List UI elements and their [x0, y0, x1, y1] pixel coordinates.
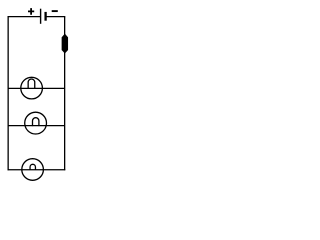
battery positive plate (long) — [40, 9, 42, 24]
wire: top left horizontal to battery positive plate — [8, 16, 41, 18]
wire: rung 2 horizontal — [8, 125, 65, 127]
lamp L2 — [25, 112, 47, 134]
component: filled capsule (fuse) on right branch — [62, 34, 68, 53]
wire: right vertical branch — [64, 17, 66, 171]
wire: rung 1 horizontal — [8, 87, 65, 89]
label + (battery positive terminal) — [28, 8, 34, 15]
label - (battery negative terminal) — [52, 10, 58, 12]
battery negative plate (short thick) — [44, 12, 46, 21]
lamp L1 — [21, 77, 43, 99]
wire: top right horizontal from battery to right branch — [46, 16, 66, 18]
wire: rung 3 bottom horizontal — [8, 169, 66, 171]
lamp L3 — [22, 159, 44, 181]
wire: left vertical branch — [7, 17, 9, 171]
